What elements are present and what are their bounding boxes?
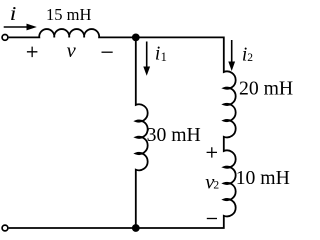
- svg-text:2: 2: [247, 52, 253, 64]
- svg-text:i: i: [10, 3, 17, 25]
- svg-text:30 mH: 30 mH: [147, 124, 201, 146]
- svg-text:20 mH: 20 mH: [239, 78, 293, 100]
- svg-text:v: v: [67, 40, 77, 62]
- svg-text:2: 2: [213, 180, 219, 192]
- svg-text:15 mH: 15 mH: [46, 5, 91, 24]
- svg-text:i: i: [155, 44, 160, 65]
- svg-text:1: 1: [161, 50, 167, 64]
- svg-text:10 mH: 10 mH: [236, 167, 290, 189]
